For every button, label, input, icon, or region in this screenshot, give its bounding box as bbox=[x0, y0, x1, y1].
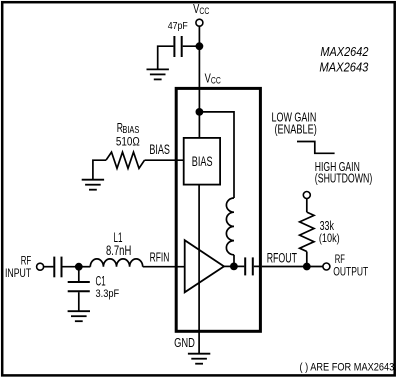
wire amp out to node bbox=[224, 265, 234, 267]
svg-text:( ) ARE FOR MAX2643.: ( ) ARE FOR MAX2643. bbox=[300, 361, 397, 373]
label LOW GAIN (ENABLE) bbox=[272, 109, 317, 136]
svg-text:OUTPUT: OUTPUT bbox=[333, 264, 368, 278]
gain control step waveform bbox=[297, 142, 335, 154]
svg-text:(SHUTDOWN): (SHUTDOWN) bbox=[315, 170, 373, 185]
svg-text:INPUT: INPUT bbox=[5, 266, 32, 280]
svg-text:C1: C1 bbox=[96, 273, 106, 288]
terminal VCC (top) bbox=[196, 19, 203, 26]
svg-text:RFOUT: RFOUT bbox=[267, 251, 297, 266]
capacitor C bypass 47pF bbox=[174, 36, 181, 57]
capacitor C1 3.3pF bbox=[68, 267, 90, 311]
ground (47pF) bbox=[147, 69, 169, 79]
label RF INPUT bbox=[5, 253, 32, 280]
wire RBIAS to BIAS pin bbox=[145, 159, 184, 161]
terminal gain control bbox=[303, 192, 310, 199]
svg-text:BIAS: BIAS bbox=[192, 154, 213, 169]
wire node to L1 bbox=[79, 266, 91, 268]
svg-text:GND: GND bbox=[174, 335, 195, 350]
inductor internal choke bbox=[226, 198, 234, 266]
svg-text:(ENABLE): (ENABLE) bbox=[275, 122, 317, 137]
svg-text:8.7nH: 8.7nH bbox=[106, 243, 131, 258]
wire node to output cap bbox=[234, 265, 244, 267]
svg-text:MAX2642: MAX2642 bbox=[320, 45, 368, 59]
wire RFOUT to node bbox=[262, 266, 323, 268]
svg-text:RFIN: RFIN bbox=[150, 250, 170, 265]
node junction (inside box top) bbox=[196, 108, 204, 116]
svg-text:3.3pF: 3.3pF bbox=[96, 288, 120, 300]
resistor R pullup 33k bbox=[300, 198, 314, 263]
node input junction bbox=[75, 263, 83, 271]
node output junction (internal) bbox=[230, 263, 238, 271]
svg-text:CC: CC bbox=[199, 6, 209, 16]
label MAX2642 MAX2643 bbox=[319, 45, 368, 75]
wire cap to ground bbox=[158, 46, 174, 69]
block BIAS bbox=[184, 138, 220, 185]
svg-text:510Ω: 510Ω bbox=[116, 135, 140, 149]
label HIGH GAIN (SHUTDOWN) bbox=[315, 159, 373, 186]
capacitor C output coupling bbox=[245, 257, 253, 275]
wire cap to box edge bbox=[254, 265, 260, 267]
svg-text:MAX2643: MAX2643 bbox=[319, 61, 368, 75]
ground (C1) bbox=[68, 311, 90, 321]
op-amp A1 (RF amplifier) bbox=[185, 240, 224, 292]
label VCC (top) bbox=[193, 2, 209, 16]
svg-text:(10k): (10k) bbox=[319, 232, 340, 245]
wire node to BIAS block bbox=[198, 112, 200, 138]
inductor L1 8.7nH bbox=[90, 259, 142, 267]
node RFOUT junction bbox=[303, 263, 311, 271]
ground (RBIAS) bbox=[82, 180, 104, 190]
wire input to cap bbox=[43, 266, 53, 268]
wire node to choke bbox=[199, 112, 234, 198]
node VCC junction bbox=[196, 42, 204, 50]
label RBIAS bbox=[117, 120, 140, 136]
svg-text:47pF: 47pF bbox=[168, 21, 188, 32]
capacitor C input coupling bbox=[54, 257, 61, 278]
svg-text:CC: CC bbox=[211, 76, 221, 86]
wire RBIAS left to ground bbox=[93, 160, 106, 179]
terminal RF OUTPUT bbox=[323, 263, 330, 270]
wire L1 to RFIN bbox=[143, 266, 185, 268]
wire cap to node bbox=[183, 45, 200, 47]
resistor RBIAS 510 ohm bbox=[106, 152, 145, 168]
label RF OUTPUT bbox=[333, 252, 368, 279]
wire GND vertical bbox=[198, 185, 200, 354]
wire VCC vertical bbox=[198, 26, 200, 112]
wire cap to node bbox=[63, 266, 79, 268]
label VCC (pin) bbox=[205, 71, 221, 85]
ground (GND pin) bbox=[188, 354, 210, 364]
IC box U1 MAX2642 bbox=[176, 88, 260, 331]
terminal RF INPUT bbox=[37, 263, 44, 270]
svg-text:BIAS: BIAS bbox=[149, 142, 170, 157]
